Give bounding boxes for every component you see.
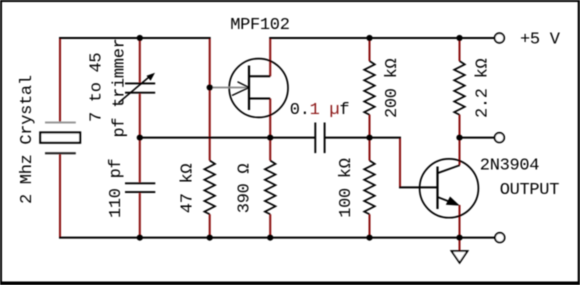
svg-text:+5 V: +5 V	[520, 31, 561, 50]
svg-text:pf trimmer: pf trimmer	[110, 38, 129, 137]
svg-text:MPF102: MPF102	[230, 16, 289, 35]
svg-text:2 Mhz Crystal: 2 Mhz Crystal	[18, 75, 37, 204]
svg-text:200 kΩ: 200 kΩ	[383, 58, 402, 118]
svg-text:100 kΩ: 100 kΩ	[337, 158, 356, 218]
svg-text:2N3904: 2N3904	[480, 156, 540, 175]
svg-text:0.1 µf: 0.1 µf	[290, 101, 350, 120]
svg-text:7 to 45: 7 to 45	[87, 53, 106, 122]
svg-text:110 pf: 110 pf	[107, 158, 126, 218]
svg-text:OUTPUT: OUTPUT	[500, 181, 560, 200]
svg-text:390 Ω: 390 Ω	[236, 164, 255, 214]
svg-text:2.2 kΩ: 2.2 kΩ	[473, 58, 492, 118]
svg-text:47 kΩ: 47 kΩ	[178, 164, 197, 214]
